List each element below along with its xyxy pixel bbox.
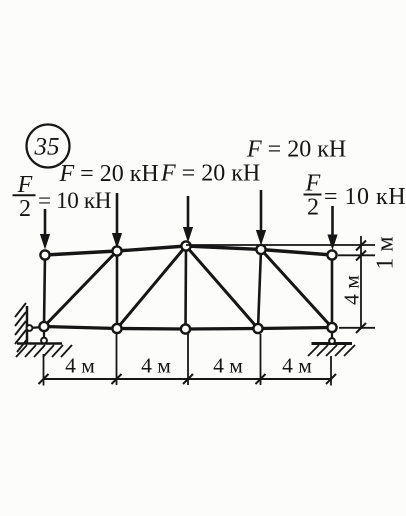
svg-text:1 м: 1 м (373, 236, 399, 269)
svg-text:F = 20 кН: F = 20 кН (246, 137, 346, 163)
svg-text:F: F (305, 171, 321, 197)
svg-text:35: 35 (34, 134, 60, 161)
svg-text:F: F (17, 172, 33, 198)
svg-text:4 м: 4 м (65, 354, 95, 378)
svg-text:2: 2 (19, 196, 31, 222)
svg-text:F = 20 кН: F = 20 кН (59, 161, 159, 187)
svg-text:4 м: 4 м (141, 354, 171, 378)
svg-text:= 10 кН: = 10 кН (324, 184, 406, 210)
svg-text:F = 20 кН: F = 20 кН (160, 161, 260, 187)
svg-text:4 м: 4 м (282, 354, 312, 378)
svg-text:4 м: 4 м (340, 275, 364, 305)
svg-text:= 10 кН: = 10 кН (38, 188, 112, 214)
svg-text:2: 2 (307, 195, 319, 221)
svg-text:4 м: 4 м (213, 354, 243, 378)
